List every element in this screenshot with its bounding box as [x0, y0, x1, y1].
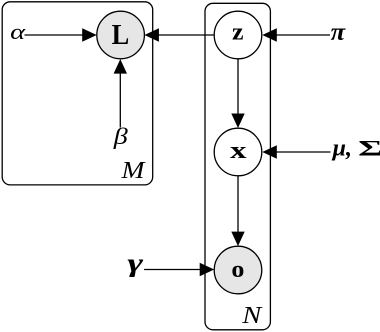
plate N (right plate)	[205, 3, 270, 330]
svg-text:α: α	[10, 19, 26, 44]
label alpha	[10, 19, 26, 44]
label mu	[331, 136, 352, 162]
svg-text:μ,: μ,	[331, 136, 352, 162]
wire beta to L	[114, 59, 127, 127]
node L	[97, 11, 145, 59]
plate M (left plate)	[2, 2, 153, 185]
svg-text:Σ: Σ	[358, 136, 380, 161]
wire alpha to L	[25, 28, 97, 41]
label beta	[113, 124, 129, 149]
wire mu,Sigma to x	[262, 145, 330, 158]
label pi	[331, 17, 347, 46]
svg-text:o: o	[231, 256, 244, 283]
svg-text:L: L	[112, 20, 130, 51]
wire z to x	[231, 59, 244, 128]
node z	[214, 11, 262, 59]
wire pi to z	[262, 28, 330, 41]
svg-text:β: β	[113, 124, 129, 149]
node o	[214, 246, 262, 294]
svg-text:x: x	[230, 138, 247, 164]
svg-text:π: π	[331, 17, 347, 46]
svg-text:γ: γ	[127, 248, 143, 277]
svg-text:z: z	[232, 19, 244, 45]
svg-text:M: M	[120, 157, 146, 184]
label gamma	[127, 248, 143, 277]
node x	[214, 128, 262, 176]
label Sigma	[358, 136, 380, 161]
wire z to L	[144, 28, 214, 41]
wire x to o	[231, 176, 244, 246]
svg-text:N: N	[241, 303, 264, 329]
wire gamma to o	[144, 263, 214, 276]
